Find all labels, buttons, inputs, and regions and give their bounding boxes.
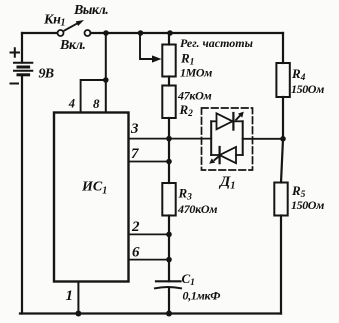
label pin 4 — [68, 97, 75, 111]
label R2 — [179, 102, 194, 119]
LED left bus — [210, 121, 212, 155]
node junction pin1 bottom — [75, 311, 81, 317]
node junction C1 bottom — [166, 311, 172, 317]
svg-text:150Ом: 150Ом — [291, 82, 324, 96]
label pin 8 — [93, 96, 100, 111]
node junction pin3 — [166, 136, 172, 142]
svg-text:1МОм: 1МОм — [180, 66, 212, 80]
wire pin 1 — [77, 282, 79, 314]
node junction pin8 on top rail — [103, 30, 109, 36]
wire pin 6 — [129, 259, 170, 261]
node junction pin6 — [166, 257, 172, 263]
svg-text:2: 2 — [131, 219, 140, 235]
label 47kOm — [177, 89, 212, 103]
label R1 — [180, 51, 194, 68]
label 150Om R5 — [291, 198, 324, 212]
svg-text:9В: 9В — [39, 67, 54, 82]
svg-text:Выкл.: Выкл. — [73, 3, 108, 18]
LED D1 bottom arrow — [209, 157, 218, 164]
wire R5 to bottom rail — [280, 216, 282, 314]
svg-text:8: 8 — [93, 96, 100, 111]
label C1 — [182, 271, 195, 288]
op-amp U1 IC body — [54, 113, 129, 282]
node junction pin7 — [166, 159, 172, 165]
resistor R2 body — [162, 86, 175, 139]
label D1 — [218, 174, 236, 192]
wire pin 4 — [81, 80, 106, 113]
wire top rail left (battery to switch) — [22, 32, 57, 34]
label pin 2 — [131, 219, 140, 235]
resistor R5 body — [274, 183, 287, 216]
label Kn1 — [43, 13, 65, 29]
svg-text:4: 4 — [68, 97, 75, 111]
label pin 1 — [66, 288, 74, 304]
label 470kOm — [177, 202, 217, 216]
wire middle vertical pin3 to R3 — [168, 139, 170, 183]
resistor R4 body — [276, 63, 289, 97]
battery GB 9V — [11, 33, 33, 84]
svg-text:150Ом: 150Ом — [291, 198, 324, 212]
switch Kn1 lever arrow — [65, 20, 85, 31]
LED D1 top diode — [211, 113, 243, 130]
wire pin 7 — [129, 161, 170, 163]
capacitor C1 — [155, 281, 181, 313]
svg-text:47кОм: 47кОм — [177, 89, 212, 103]
svg-text:Рег. частоты: Рег. частоты — [180, 36, 253, 50]
label Reg chastoty — [180, 36, 253, 50]
node junction R1 top on top rail — [167, 30, 173, 36]
label R5 — [291, 183, 306, 200]
svg-text:Вкл.: Вкл. — [59, 38, 85, 53]
wire potentiometer wiper arrow — [140, 33, 162, 63]
wire LED to right branch — [243, 138, 283, 140]
label R4 — [291, 66, 306, 83]
LED block D1 dashed box — [202, 108, 253, 170]
label 1MOm — [180, 66, 212, 80]
node junction LED right — [280, 136, 286, 142]
label pin 7 — [131, 146, 139, 162]
svg-text:470кОм: 470кОм — [177, 202, 217, 216]
label pin 6 — [132, 245, 140, 261]
LED D1 bottom diode — [211, 147, 243, 163]
switch Kn1 contact left — [58, 30, 64, 36]
node junction pin2 — [166, 232, 172, 238]
svg-text:3: 3 — [130, 121, 139, 137]
label 9V — [39, 67, 54, 82]
wire pin 8 — [105, 33, 107, 113]
label Vkl — [59, 38, 85, 53]
label Vykl — [73, 3, 108, 18]
label pin 3 — [130, 121, 139, 137]
wire top rail (switch to right branch) — [91, 32, 284, 34]
svg-text:7: 7 — [131, 146, 139, 162]
node junction pin4-pin8 — [103, 77, 109, 83]
resistor R1 potentiometer body — [162, 33, 175, 86]
label 150Om R4 — [291, 82, 324, 96]
LED D1 top arrow — [236, 112, 244, 120]
svg-text:0,1мкФ: 0,1мкФ — [183, 289, 221, 303]
resistor R3 body — [162, 183, 175, 281]
wire bottom rail — [20, 312, 281, 314]
wire left side down — [21, 75, 23, 314]
wire pin 3 — [129, 138, 212, 140]
switch Kn1 contact right — [85, 30, 91, 36]
label 0.1mkF — [183, 289, 221, 303]
svg-text:1: 1 — [66, 288, 74, 304]
node junction wiper on top rail — [138, 30, 144, 36]
wire right branch top — [282, 33, 284, 63]
wire R4 to R5 — [281, 97, 283, 183]
LED right bus — [242, 121, 244, 155]
label IC1 — [81, 180, 107, 197]
wire pin 2 — [129, 233, 170, 235]
label R3 — [178, 186, 193, 203]
svg-text:6: 6 — [132, 245, 140, 261]
